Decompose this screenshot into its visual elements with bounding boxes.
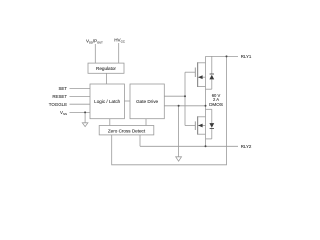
svg-text:RLY2: RLY2: [241, 144, 252, 149]
svg-text:Zero Cross Detect: Zero Cross Detect: [108, 128, 146, 133]
svg-text:Gate Drive: Gate Drive: [136, 99, 158, 104]
svg-text:TOGGLE: TOGGLE: [49, 102, 67, 107]
svg-text:Regulator: Regulator: [96, 66, 116, 71]
svg-text:SET: SET: [58, 86, 67, 91]
svg-text:VSS: VSS: [60, 110, 67, 116]
svg-text:Logic / Latch: Logic / Latch: [94, 99, 120, 104]
svg-text:RESET: RESET: [52, 94, 67, 99]
svg-text:RLY1: RLY1: [241, 54, 252, 59]
svg-text:HVCC: HVCC: [114, 38, 126, 44]
svg-text:DMOS: DMOS: [209, 102, 223, 107]
